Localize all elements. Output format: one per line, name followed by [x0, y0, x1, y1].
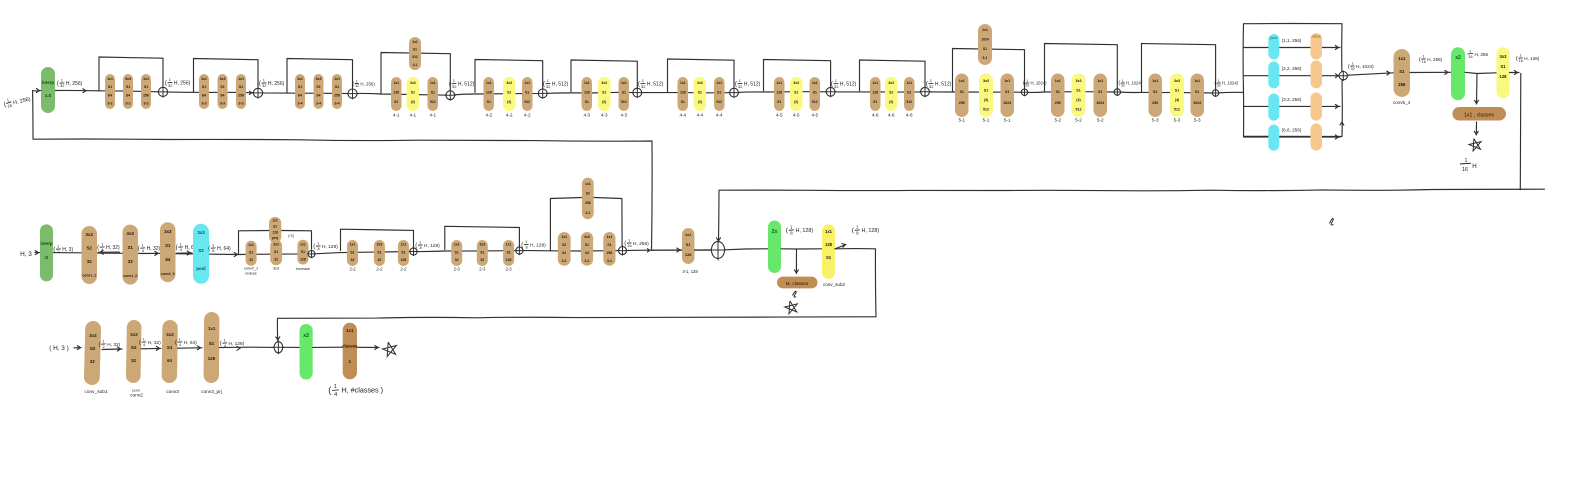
- svg-text:interp: interp: [40, 241, 53, 246]
- svg-text:conv3: conv3: [166, 389, 179, 395]
- svg-text:5-1: 5-1: [983, 56, 988, 60]
- svg-text:x.5: x.5: [45, 93, 52, 98]
- wire CFF24 to x2: [725, 249, 768, 250]
- svg-text:1x1: 1x1: [248, 243, 254, 247]
- svg-text:(2,2, 256): (2,2, 256): [1282, 66, 1302, 71]
- svg-text:64: 64: [126, 93, 130, 97]
- svg-text:1x1: 1x1: [1398, 56, 1406, 61]
- svg-text:1x1: 1x1: [906, 81, 912, 85]
- svg-text:(: (: [313, 244, 315, 250]
- svg-text:proj: proj: [272, 236, 278, 240]
- svg-text:4-6: 4-6: [872, 113, 879, 118]
- conv block 5-1 group: [953, 49, 1025, 92]
- svg-text:32: 32: [738, 84, 743, 89]
- interp x2 pill mid: [768, 221, 781, 274]
- wire x2 to yellow mid: [781, 248, 822, 250]
- svg-text:5-1: 5-1: [1004, 118, 1011, 123]
- svg-text:H, 256): H, 256): [268, 81, 285, 87]
- svg-text:1x1: 1x1: [680, 81, 686, 85]
- svg-text:32: 32: [274, 258, 278, 262]
- add node 5-2: [1113, 88, 1121, 96]
- svg-text:32: 32: [1351, 67, 1355, 71]
- svg-text:S1: S1: [1153, 90, 1157, 94]
- svg-text:4-6: 4-6: [906, 113, 913, 118]
- svg-text:32: 32: [87, 259, 92, 264]
- svg-text:1: 1: [1351, 62, 1353, 66]
- svg-text:8: 8: [525, 246, 527, 250]
- svg-text:3-2: 3-2: [107, 102, 112, 106]
- svg-text:1: 1: [1122, 79, 1124, 83]
- svg-text:3x3: 3x3: [983, 79, 989, 83]
- ppm pool pill branch 3: [1268, 94, 1279, 121]
- conv block 4-2 group: [475, 60, 543, 93]
- svg-text:1x1: 1x1: [1004, 79, 1010, 83]
- svg-text:conv_sub2: conv_sub2: [823, 282, 846, 287]
- svg-text:3-1: 3-1: [607, 259, 612, 263]
- conv block 3-1 skip wire: [550, 198, 582, 251]
- svg-text:1x1: 1x1: [486, 81, 492, 85]
- svg-text:(1,1, 256): (1,1, 256): [1282, 38, 1302, 43]
- svg-text:H, 3): H, 3): [62, 247, 73, 253]
- svg-text:1x1: 1x1: [621, 81, 627, 85]
- svg-text:S1: S1: [1175, 89, 1179, 93]
- svg-text:S1: S1: [220, 85, 224, 89]
- svg-text:S1: S1: [298, 85, 302, 89]
- svg-text:5-3: 5-3: [1152, 118, 1159, 123]
- svg-text:classes: classes: [342, 344, 358, 349]
- svg-text:S1: S1: [1098, 90, 1102, 94]
- svg-text:1024: 1024: [1096, 101, 1104, 105]
- conv block 4-6 group: [860, 60, 926, 91]
- CFF24 big add node: [710, 240, 726, 261]
- conv pill 5-2 3x3: [1072, 74, 1086, 118]
- svg-text:1x1: 1x1: [872, 81, 878, 85]
- loss l mid: [793, 291, 797, 297]
- svg-text:128: 128: [208, 356, 216, 361]
- svg-text:1x1: 1x1: [1055, 79, 1061, 83]
- ppm pool pill branch 4: [1268, 125, 1279, 151]
- svg-text:1: 1: [143, 338, 145, 342]
- conv_sub2 pill: [126, 320, 142, 383]
- svg-text:3-4: 3-4: [334, 102, 339, 106]
- svg-text:3x3: 3x3: [316, 77, 322, 81]
- conv 3x3 128 yellow pill top right: [1497, 47, 1510, 98]
- aux classes pill top right: [1452, 107, 1506, 121]
- conv pill 4-3 1x1: [582, 77, 593, 111]
- svg-text:H, 32): H, 32): [107, 342, 120, 348]
- conv pill 4-2 1x1: [484, 77, 495, 111]
- conv pill 4-5 1x1: [810, 77, 821, 111]
- svg-text:2: 2: [103, 345, 105, 349]
- svg-text:S1: S1: [907, 91, 911, 95]
- svg-text:32: 32: [262, 83, 267, 88]
- loss star top right: [1469, 139, 1481, 151]
- svg-text:S1: S1: [431, 91, 435, 95]
- conv pill 5-3 3x3: [1170, 74, 1184, 118]
- shortcut pill 3-1 proj: [582, 178, 594, 220]
- svg-text:S1: S1: [301, 250, 305, 254]
- svg-text:1x1: 1x1: [454, 243, 460, 247]
- svg-text:S1: S1: [487, 100, 491, 104]
- svg-text:4-5: 4-5: [793, 113, 800, 118]
- svg-text:S1: S1: [377, 250, 381, 254]
- svg-text:S2: S2: [562, 243, 566, 247]
- svg-text:1: 1: [628, 239, 630, 243]
- svg-text:4-2: 4-2: [485, 113, 492, 118]
- svg-text:S1: S1: [350, 250, 354, 254]
- conv block 4-5 group: [764, 60, 831, 91]
- svg-text:1x1: 1x1: [201, 77, 207, 81]
- svg-text:resize: resize: [1312, 35, 1321, 39]
- svg-text:S1: S1: [585, 243, 589, 247]
- svg-text:64: 64: [585, 251, 589, 255]
- wire ppm to conv5_4: [1348, 73, 1394, 75]
- ppm branch 3 wire: [1244, 105, 1269, 107]
- svg-text:32: 32: [1121, 84, 1125, 88]
- svg-text:3x3: 3x3: [1076, 79, 1082, 83]
- svg-text:32: 32: [452, 84, 457, 89]
- svg-text:(: (: [352, 81, 354, 87]
- svg-text:H, 512): H, 512): [744, 82, 761, 88]
- svg-text:512: 512: [716, 100, 722, 104]
- svg-text:3x3: 3x3: [86, 232, 94, 237]
- svg-text:32: 32: [131, 358, 137, 363]
- svg-text:S1: S1: [144, 85, 148, 89]
- conv pill 4-6 1x1: [870, 77, 881, 111]
- svg-text:(2): (2): [889, 100, 893, 104]
- add node 5-1: [1021, 88, 1029, 96]
- add node 4-2: [537, 88, 548, 99]
- svg-text:128: 128: [685, 253, 691, 257]
- loss star mid: [785, 301, 798, 314]
- svg-text:4-4: 4-4: [696, 113, 703, 118]
- svg-text:1: 1: [419, 241, 421, 245]
- svg-text:2-2: 2-2: [349, 267, 356, 272]
- svg-text:(: (: [99, 342, 101, 348]
- svg-text:256: 256: [585, 201, 591, 205]
- add node 4-4: [729, 87, 740, 98]
- svg-text:4: 4: [334, 392, 337, 398]
- svg-text:3x3: 3x3: [166, 332, 174, 337]
- svg-text:512: 512: [983, 108, 989, 112]
- output star bottom: [383, 342, 397, 356]
- svg-text:5-3: 5-3: [1194, 118, 1201, 123]
- svg-text:4-4: 4-4: [716, 113, 723, 118]
- CFF12 add node: [273, 340, 284, 354]
- svg-text:4-5: 4-5: [811, 113, 818, 118]
- svg-text:S1: S1: [128, 245, 134, 250]
- interp x2 pill top right: [1451, 47, 1465, 100]
- svg-text:2-3: 2-3: [506, 267, 513, 272]
- add node 4-3: [632, 87, 643, 98]
- svg-text:4-4: 4-4: [679, 113, 686, 118]
- wire mid to 1x1 128 pill: [652, 249, 682, 251]
- svg-text:S1: S1: [602, 91, 606, 95]
- svg-text:conv1_3: conv1_3: [161, 272, 175, 276]
- svg-text:/2: /2: [45, 255, 49, 260]
- conv5_4 pill: [1394, 49, 1411, 97]
- svg-text:(: (: [328, 385, 331, 395]
- svg-text:S1: S1: [681, 100, 685, 104]
- svg-text:H, 512): H, 512): [552, 82, 569, 88]
- wire mid-row main: [35, 250, 712, 255]
- svg-text:S1: S1: [413, 48, 417, 52]
- svg-text:4-2: 4-2: [506, 113, 513, 118]
- svg-text:5-1: 5-1: [983, 118, 990, 123]
- interp x0.5 pill (low-res branch input): [41, 67, 55, 113]
- svg-text:3x3: 3x3: [506, 81, 512, 85]
- svg-text:5-1: 5-1: [958, 118, 965, 123]
- svg-text:conv5_4: conv5_4: [1393, 100, 1411, 105]
- svg-text:pool: pool: [1270, 36, 1277, 40]
- add node 3-3: [252, 87, 264, 99]
- svg-text:conv1_1: conv1_1: [82, 274, 96, 278]
- svg-text:4-1: 4-1: [393, 113, 400, 118]
- svg-text:H, 256): H, 256): [66, 81, 83, 87]
- svg-text:S1: S1: [167, 345, 173, 350]
- wire long return low branch to CFF24: [1519, 74, 1522, 190]
- ppm resize pill branch 2: [1311, 61, 1323, 89]
- svg-text:H, 128): H, 128): [424, 243, 440, 249]
- svg-text:4-6: 4-6: [888, 113, 895, 118]
- svg-text:H, 128): H, 128): [322, 244, 338, 250]
- svg-text:256: 256: [334, 93, 340, 97]
- svg-text:1x1: 1x1: [561, 235, 567, 239]
- conv pill 4-4 3x3: [694, 77, 707, 111]
- svg-text:3-1, 128: 3-1, 128: [682, 269, 698, 274]
- arrowhead before conv3-2: [249, 91, 252, 94]
- svg-text:H, #classes ): H, #classes ): [342, 386, 384, 395]
- conv pill 3-2 1x1: [105, 74, 115, 109]
- add node 4-1: [445, 90, 456, 101]
- svg-text:S1: S1: [274, 250, 278, 254]
- svg-text:1x1: 1x1: [1152, 79, 1158, 83]
- svg-text:1x1: 1x1: [143, 77, 149, 81]
- svg-text:1x1: 1x1: [272, 219, 278, 223]
- svg-text:S1: S1: [794, 91, 798, 95]
- svg-text:4-1: 4-1: [413, 63, 418, 67]
- svg-text:3x3: 3x3: [584, 235, 590, 239]
- svg-text:32: 32: [929, 84, 934, 89]
- svg-text:S2: S2: [586, 192, 590, 196]
- svg-text:3x3: 3x3: [197, 230, 205, 235]
- conv pill 2-3 1x1: [451, 240, 462, 266]
- svg-text:2-2: 2-2: [376, 267, 383, 272]
- svg-text:1x1: 1x1: [685, 233, 691, 237]
- conv pill 4-3 3x3: [598, 77, 611, 111]
- conv block 5-2 group: [1045, 44, 1118, 92]
- add node 3-1: [618, 246, 628, 256]
- svg-text:H, 256): H, 256): [1427, 57, 1443, 62]
- add node 2-2: [409, 247, 418, 256]
- svg-text:1: 1: [224, 339, 226, 343]
- wire top-row main: [55, 90, 1244, 95]
- svg-text:64: 64: [298, 93, 302, 97]
- svg-text:3x3: 3x3: [273, 267, 279, 271]
- svg-text:H, 32): H, 32): [147, 246, 161, 252]
- svg-text:S1: S1: [873, 100, 877, 104]
- svg-text:S1: S1: [813, 91, 817, 95]
- conv pill 4-4 1x1: [678, 77, 689, 111]
- svg-text:3-2: 3-2: [125, 102, 130, 106]
- svg-text:H, 128): H, 128): [796, 228, 814, 234]
- conv pill 4-4 1x1: [714, 77, 725, 111]
- svg-text:S1: S1: [126, 85, 130, 89]
- conv1_1 pill: [82, 226, 98, 284]
- svg-text:(: (: [1348, 64, 1350, 70]
- svg-text:1x1: 1x1: [584, 81, 590, 85]
- conv pill 3-1 3x3: [581, 232, 593, 266]
- svg-text:1x1: 1x1: [776, 81, 782, 85]
- svg-text:3-3: 3-3: [238, 102, 243, 106]
- conv pill 4-3 1x1: [619, 77, 630, 111]
- conv block 3-4 bottleneck group: [287, 59, 353, 93]
- svg-text:increase: increase: [296, 267, 310, 271]
- svg-text:3x3: 3x3: [164, 229, 172, 234]
- wire CFF12 to x2 bottom: [283, 346, 300, 348]
- svg-text:S1: S1: [889, 91, 893, 95]
- svg-text:128: 128: [872, 91, 878, 95]
- add node 4-6: [920, 86, 931, 97]
- svg-text:1x1: 1x1: [350, 243, 356, 247]
- svg-text:(: (: [220, 341, 222, 347]
- svg-text:S1: S1: [480, 250, 484, 254]
- svg-text:1x1: 1x1: [959, 79, 965, 83]
- aux arrow to star: [1475, 122, 1477, 135]
- conv pill 4-2 1x1: [522, 77, 533, 111]
- conv1_2 pill: [123, 225, 139, 285]
- svg-text:1: 1: [317, 242, 319, 246]
- svg-text:1x1: 1x1: [430, 81, 436, 85]
- add node 3-4: [347, 88, 358, 100]
- svg-text:S2: S2: [198, 248, 204, 253]
- conv pill 5-2 1x1: [1051, 74, 1065, 118]
- svg-text:16: 16: [1468, 55, 1472, 59]
- wire branch up to low-res path: [33, 91, 653, 251]
- loss l stray right: [1330, 218, 1334, 225]
- add node 2-1: [307, 250, 316, 258]
- ppm branch 4 wire: [1244, 136, 1269, 138]
- svg-text:S1: S1: [401, 250, 405, 254]
- svg-text:S1: S1: [698, 91, 702, 95]
- svg-text:H, 128): H, 128): [862, 228, 880, 234]
- svg-text:S1: S1: [622, 91, 626, 95]
- conv pill 2-1 increase: [297, 240, 308, 265]
- svg-text:S1: S1: [165, 243, 171, 248]
- wire into CFF24 add: [695, 249, 712, 251]
- svg-text:64: 64: [165, 257, 170, 262]
- svg-text:H, 512): H, 512): [935, 82, 952, 88]
- svg-text:S1: S1: [717, 91, 721, 95]
- svg-text:1024: 1024: [1003, 101, 1011, 105]
- svg-text:1: 1: [1026, 79, 1028, 83]
- svg-text:1x1: 1x1: [297, 77, 303, 81]
- svg-text:3-1: 3-1: [562, 259, 567, 263]
- svg-text:S1: S1: [273, 224, 277, 228]
- svg-text:1: 1: [334, 384, 337, 390]
- ppm pool pill branch 2: [1268, 62, 1279, 89]
- svg-text:3x3: 3x3: [125, 77, 131, 81]
- svg-text:32: 32: [1026, 84, 1030, 88]
- svg-text:128: 128: [584, 91, 590, 95]
- svg-text:16: 16: [1462, 167, 1468, 173]
- svg-text:(6,6, 256): (6,6, 256): [1282, 128, 1302, 133]
- ppm pool pill branch 1: [1268, 34, 1279, 59]
- svg-text:conv_sub1: conv_sub1: [84, 389, 108, 395]
- svg-text:64: 64: [562, 251, 566, 255]
- svg-text:H, 1024): H, 1024): [1356, 64, 1374, 69]
- label input (1/16H,256) rotated top-left: [2, 93, 31, 110]
- svg-text:1: 1: [356, 79, 358, 83]
- svg-text:1x1: 1x1: [401, 243, 407, 247]
- conv 3-1/128 projection pill: [682, 228, 695, 264]
- svg-text:conv2: conv2: [130, 393, 143, 399]
- svg-text:32: 32: [168, 83, 173, 88]
- svg-text:512: 512: [412, 55, 418, 59]
- svg-text:128: 128: [272, 230, 278, 234]
- svg-text:S1: S1: [394, 100, 398, 104]
- svg-text:1: 1: [1469, 50, 1471, 54]
- conv pill 4-1 1x1: [391, 77, 402, 111]
- conv pill 4-6 1x1: [904, 77, 915, 111]
- wire mid return down to bottom row: [277, 249, 876, 341]
- svg-text:4-3: 4-3: [583, 113, 590, 118]
- svg-text:1: 1: [102, 340, 104, 344]
- svg-text:H, 512): H, 512): [647, 82, 664, 88]
- svg-text:(2): (2): [507, 100, 511, 104]
- svg-text:4: 4: [143, 343, 145, 347]
- svg-text:S1: S1: [1005, 90, 1009, 94]
- wire classes to star: [357, 346, 379, 348]
- svg-text:1x1: 1x1: [524, 81, 530, 85]
- svg-text:x2: x2: [303, 333, 309, 339]
- svg-text:M, classes: M, classes: [786, 281, 809, 287]
- svg-text:3x3: 3x3: [273, 243, 279, 247]
- conv block 2-3 group: [445, 226, 520, 249]
- conv_sub1 pill: [84, 321, 101, 385]
- svg-text:3-4: 3-4: [297, 102, 302, 106]
- svg-text:( H, 3 ): ( H, 3 ): [49, 345, 69, 352]
- ppm branch 2 wire: [1244, 75, 1269, 77]
- svg-text:512: 512: [1076, 108, 1082, 112]
- svg-text:3x3: 3x3: [479, 243, 485, 247]
- svg-text:128: 128: [506, 258, 512, 262]
- svg-text:S1: S1: [239, 85, 243, 89]
- svg-text:2-3: 2-3: [479, 267, 486, 272]
- svg-text:3-3: 3-3: [201, 102, 206, 106]
- arrowhead after interp3: [83, 89, 86, 93]
- svg-text:S2: S2: [87, 246, 93, 251]
- svg-text:S2: S2: [90, 346, 96, 351]
- svg-text:1x1: 1x1: [585, 182, 591, 186]
- svg-text:S1: S1: [1399, 69, 1405, 74]
- add node 2-3: [515, 246, 524, 255]
- svg-text:3-2: 3-2: [143, 102, 148, 106]
- conv pill 2-1 reduce: [246, 241, 257, 266]
- svg-text:1x1: 1x1: [334, 77, 340, 81]
- svg-text:H, 512): H, 512): [458, 82, 475, 88]
- svg-text:64: 64: [317, 93, 321, 97]
- svg-text:3x3: 3x3: [410, 81, 416, 85]
- svg-text:1x1: 1x1: [107, 77, 113, 81]
- svg-text:3x3: 3x3: [377, 243, 383, 247]
- svg-text:2-2: 2-2: [400, 267, 407, 272]
- ppm resize pill branch 1: [1311, 33, 1323, 59]
- svg-text:S1: S1: [1195, 90, 1199, 94]
- interp half pill mid row: [40, 224, 53, 281]
- conv pill 3-4 1x1: [295, 74, 305, 109]
- conv1_3 pill: [160, 222, 176, 282]
